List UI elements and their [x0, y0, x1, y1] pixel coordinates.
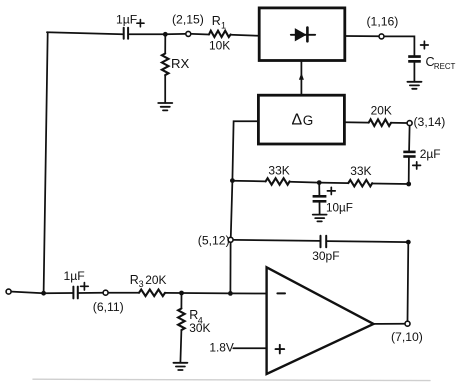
wire (3,14) down to C 2uF	[408, 126, 411, 150]
wire R3 to R4 junction	[165, 292, 182, 294]
resistor 33K right	[348, 180, 372, 186]
label deltaG	[292, 112, 314, 129]
junction right bus at 30pF row	[406, 240, 411, 245]
svg-text:1µF: 1µF	[116, 13, 137, 27]
capacitor CRECT	[408, 55, 421, 63]
junction left bus bottom	[41, 291, 46, 296]
terminal (6,11)	[103, 290, 108, 295]
capacitor 30pF	[321, 236, 327, 247]
wire rectifier box to deltaG box with arrow	[300, 61, 302, 96]
wire right bus down to (7,10)	[407, 242, 410, 320]
svg-text:1µF: 1µF	[64, 269, 85, 283]
wire (6,11) to R3	[109, 292, 139, 294]
label CRECT	[426, 55, 456, 71]
resistor RX	[162, 34, 169, 103]
svg-text:RX: RX	[171, 56, 190, 71]
wire (5,12) down to inverting input row	[229, 243, 231, 293]
wire op-amp output to (7,10)	[374, 323, 405, 325]
svg-text:10µF: 10µF	[326, 201, 353, 214]
label plus input	[276, 345, 285, 354]
junction inverting input node	[228, 291, 233, 296]
svg-text:R: R	[212, 14, 221, 28]
svg-text:(3,14): (3,14)	[414, 115, 446, 129]
wire Crect to ground	[413, 63, 415, 82]
svg-text:1: 1	[221, 21, 226, 31]
wire (5,12) to 30pF	[234, 240, 320, 241]
wire 1.8V to plus input	[233, 347, 266, 349]
svg-text:G: G	[303, 113, 314, 128]
svg-text:1.8V: 1.8V	[209, 340, 234, 354]
resistor R1 10K	[209, 31, 231, 37]
wire top row left of C1	[47, 32, 123, 34]
terminal input left	[6, 289, 11, 294]
svg-text:Δ: Δ	[292, 112, 303, 129]
ground RX	[158, 103, 172, 110]
rectifier block box	[259, 8, 345, 61]
junction R4 node	[179, 291, 184, 296]
wire 2uF to junction	[408, 158, 410, 184]
label + of C2	[81, 283, 89, 290]
svg-text:(6,11): (6,11)	[93, 300, 124, 314]
svg-text:33K: 33K	[350, 164, 371, 178]
scan artifact line	[33, 379, 430, 380]
capacitor 2uF	[403, 151, 415, 158]
terminal (1,16)	[379, 34, 384, 39]
wire node to terminal (2,15)	[165, 33, 185, 35]
junction right 33K row	[406, 182, 411, 187]
svg-text:33K: 33K	[268, 164, 289, 178]
terminal (3,14)	[407, 121, 412, 126]
wire junction to 33K left	[232, 180, 265, 183]
wire C1 to node	[130, 33, 166, 35]
terminal (5,12)	[228, 237, 233, 242]
svg-text:(1,16): (1,16)	[367, 15, 399, 29]
ground CRECT	[407, 82, 421, 89]
wire 33K left to middle junction	[290, 181, 320, 184]
op-amp U2	[267, 267, 374, 374]
junction top node	[163, 32, 168, 37]
ground 10uF	[313, 215, 327, 222]
capacitor C2 1uF (bottom)	[73, 287, 77, 299]
wire left vertical bus	[44, 32, 48, 293]
label R3 20K	[130, 273, 167, 289]
wire box to terminal (1,16)	[345, 35, 378, 37]
resistor 20K (top right)	[369, 119, 391, 126]
junction middle 33K row	[317, 180, 322, 185]
wire middle junction to 33K right	[319, 182, 348, 185]
resistor R4 30K	[178, 293, 185, 363]
wire 33K junction down to (5,12)	[231, 181, 233, 237]
svg-text:3: 3	[139, 279, 144, 289]
svg-text:(5,12): (5,12)	[198, 233, 230, 247]
svg-text:(7,10): (7,10)	[391, 330, 423, 344]
junction left 33K row	[230, 178, 235, 183]
label + of C1	[137, 20, 144, 27]
label minus input	[277, 292, 285, 294]
wire terminal to Crect	[385, 36, 415, 55]
capacitor 10uF	[313, 183, 327, 215]
terminal (7,10)	[405, 321, 410, 326]
resistor 33K left	[266, 178, 290, 185]
capacitor C1 1uF (top)	[124, 28, 128, 39]
svg-text:20K: 20K	[371, 104, 392, 118]
arrow up on wire	[299, 73, 304, 80]
wire junction to C2 1uF	[44, 292, 73, 294]
svg-text:30K: 30K	[189, 321, 210, 335]
wire terminal to R1	[192, 33, 209, 36]
wire to op-amp inverting input	[230, 292, 266, 294]
wire input to left bus junction	[12, 292, 44, 294]
wire 30pF to right bus	[327, 241, 408, 242]
wire 33K right to right junction	[372, 183, 409, 186]
label + of 10uF	[327, 187, 335, 194]
wire C2 to terminal (6,11)	[79, 292, 102, 294]
wire deltaG left side	[232, 121, 258, 180]
svg-text:R: R	[130, 273, 139, 287]
label + of Crect	[421, 41, 429, 49]
svg-text:10K: 10K	[209, 38, 230, 52]
label + of 2uF	[413, 162, 421, 169]
wire R4 node to (5,12) node	[182, 292, 231, 294]
ground R4	[173, 363, 187, 370]
svg-text:20K: 20K	[145, 273, 166, 287]
wire 20K to terminal (3,14)	[391, 122, 406, 124]
terminal (2,15)	[186, 31, 191, 36]
resistor R3 20K	[139, 290, 165, 297]
label R4	[189, 308, 203, 325]
wire R1 to rectifier box	[231, 35, 260, 36]
svg-text:RECT: RECT	[434, 62, 456, 71]
svg-text:2µF: 2µF	[420, 147, 441, 161]
deltaG block box U1	[258, 95, 344, 144]
wire deltaG right to 20K	[344, 121, 368, 123]
diode D1 inside box	[291, 28, 315, 42]
svg-text:30pF: 30pF	[312, 249, 339, 263]
svg-text:(2,15): (2,15)	[172, 13, 204, 27]
